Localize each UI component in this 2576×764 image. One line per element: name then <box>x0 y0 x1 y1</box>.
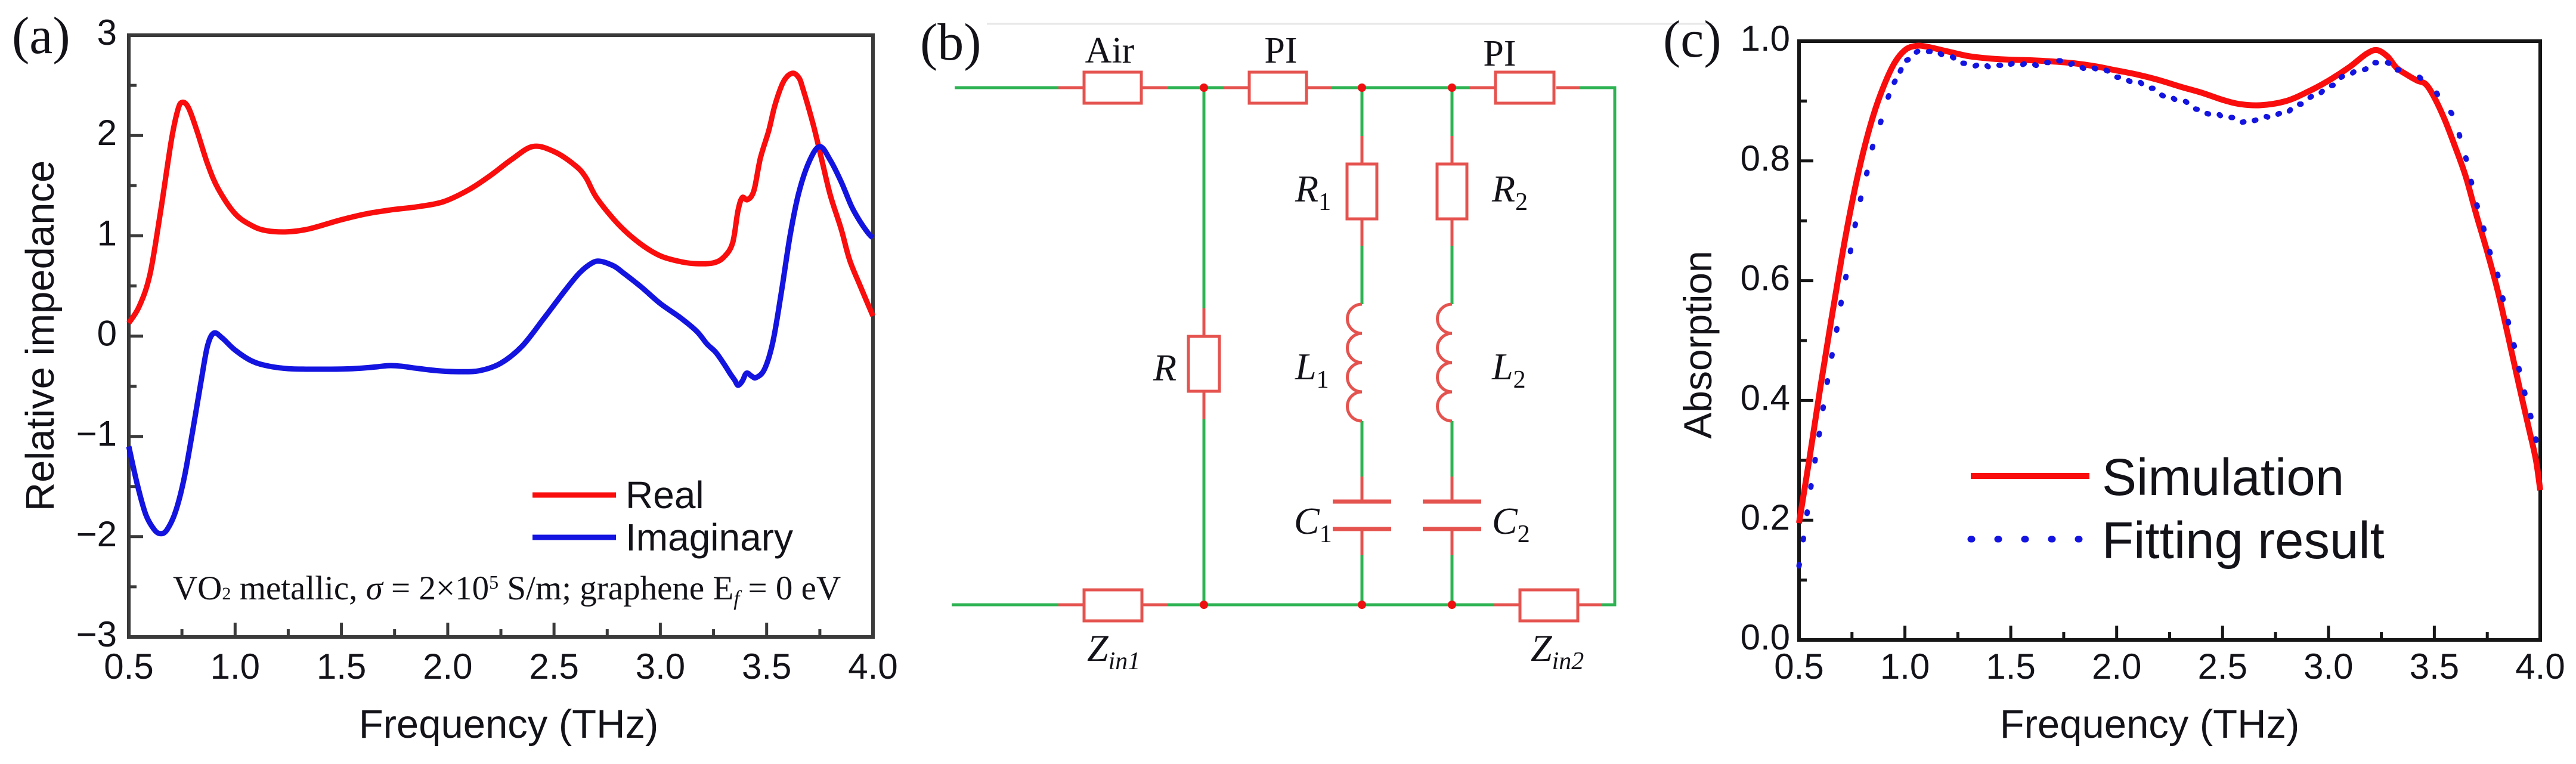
svg-text:Air: Air <box>1085 30 1135 71</box>
svg-text:2.5: 2.5 <box>2198 647 2247 686</box>
svg-text:0.8: 0.8 <box>1741 138 1790 178</box>
svg-text:0.6: 0.6 <box>1741 258 1790 298</box>
svg-text:3.5: 3.5 <box>2410 647 2459 686</box>
svg-text:R: R <box>1153 347 1176 389</box>
svg-text:Fitting result: Fitting result <box>2102 512 2385 570</box>
svg-text:0.5: 0.5 <box>1774 647 1823 686</box>
svg-text:Absorption: Absorption <box>1676 250 1720 439</box>
svg-text:0.4: 0.4 <box>1741 378 1790 417</box>
svg-text:3: 3 <box>97 13 117 52</box>
svg-text:Frequency (THz): Frequency (THz) <box>2000 702 2300 747</box>
svg-text:Imaginary: Imaginary <box>626 516 793 559</box>
svg-text:Frequency (THz): Frequency (THz) <box>359 702 659 747</box>
svg-text:0: 0 <box>97 314 117 354</box>
svg-text:PI: PI <box>1483 33 1516 74</box>
svg-text:1.5: 1.5 <box>317 647 366 686</box>
svg-text:PI: PI <box>1264 30 1297 71</box>
svg-text:VO2 metallic, σ = 2×105 S/m; g: VO2 metallic, σ = 2×105 S/m; graphene Ef… <box>173 570 841 610</box>
svg-text:1.5: 1.5 <box>1986 647 2035 686</box>
svg-text:(c): (c) <box>1663 11 1722 69</box>
svg-text:0.2: 0.2 <box>1741 497 1790 537</box>
svg-text:2.0: 2.0 <box>2092 647 2141 686</box>
svg-text:Simulation: Simulation <box>2102 448 2344 506</box>
svg-text:Real: Real <box>626 474 704 516</box>
svg-text:2.0: 2.0 <box>423 647 472 686</box>
svg-text:1.0: 1.0 <box>210 647 260 686</box>
svg-text:3.0: 3.0 <box>2303 647 2353 686</box>
svg-text:2.5: 2.5 <box>529 647 578 686</box>
svg-text:3.5: 3.5 <box>742 647 791 686</box>
svg-text:(b): (b) <box>920 14 982 72</box>
svg-text:(a): (a) <box>12 7 70 65</box>
svg-text:3.0: 3.0 <box>636 647 685 686</box>
svg-text:4.0: 4.0 <box>2515 647 2565 686</box>
svg-text:4.0: 4.0 <box>848 647 897 686</box>
svg-text:1.0: 1.0 <box>1741 18 1790 58</box>
svg-text:0.5: 0.5 <box>104 647 153 686</box>
svg-text:Relative impedance: Relative impedance <box>18 160 63 511</box>
svg-text:−1: −1 <box>76 414 117 454</box>
svg-text:1.0: 1.0 <box>1880 647 1930 686</box>
svg-text:2: 2 <box>97 113 117 153</box>
svg-text:−2: −2 <box>76 514 117 554</box>
svg-text:1: 1 <box>97 213 117 253</box>
